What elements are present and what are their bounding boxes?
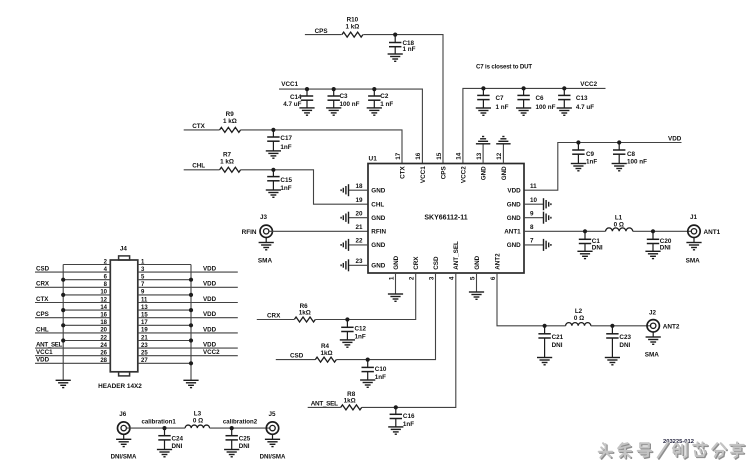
junction J4 right bus pin 13 xyxy=(189,308,193,312)
J4 row 12 pins 24/23 wires xyxy=(35,347,110,349)
junction ANT1 / C1 xyxy=(583,229,587,233)
svg-text:RFIN: RFIN xyxy=(371,229,386,236)
wire R6 to U1 pin 2 xyxy=(315,273,415,320)
svg-text:CSD: CSD xyxy=(36,266,50,273)
J4 row 3 pins 6/5 wires xyxy=(63,279,110,281)
svg-text:CHL: CHL xyxy=(192,163,205,170)
capacitor C13 xyxy=(563,88,565,95)
inductor L3 xyxy=(185,425,209,428)
svg-text:C16: C16 xyxy=(403,413,415,420)
svg-text:ANT2: ANT2 xyxy=(494,253,501,270)
svg-text:26: 26 xyxy=(100,351,107,357)
svg-text:20: 20 xyxy=(355,211,363,218)
svg-text:SKY66112-11: SKY66112-11 xyxy=(424,214,467,221)
J4 row 13 pins 26/25 wires xyxy=(35,355,110,357)
svg-text:100 nF: 100 nF xyxy=(340,101,360,108)
ground U1 pin 10 xyxy=(524,203,544,205)
svg-text:J5: J5 xyxy=(268,411,276,418)
ground C1 xyxy=(577,250,592,252)
wire U1 pin 8 ANT1 to L1 xyxy=(524,230,606,232)
ground C24 xyxy=(157,449,172,451)
svg-text:27: 27 xyxy=(141,358,148,364)
J4 row 11 pins 22/21 wires xyxy=(63,340,110,342)
svg-text:C9: C9 xyxy=(586,151,595,158)
svg-text:DNI: DNI xyxy=(239,443,250,450)
capacitor C7 xyxy=(482,88,484,95)
svg-text:VCC1: VCC1 xyxy=(281,81,298,88)
svg-text:CSD: CSD xyxy=(433,256,440,270)
ground U1 pin 12 xyxy=(502,144,504,164)
J4 row 7 pins 14/13 wires xyxy=(63,309,110,311)
capacitor C21 xyxy=(544,326,546,334)
svg-text:GND: GND xyxy=(507,242,521,249)
svg-text:VDD: VDD xyxy=(36,357,50,364)
svg-text:14: 14 xyxy=(100,305,107,311)
capacitor C20 xyxy=(652,231,654,239)
svg-text:3: 3 xyxy=(428,276,435,280)
junction J4 left bus pin 18 xyxy=(61,323,65,327)
svg-text:0 Ω: 0 Ω xyxy=(574,315,584,322)
ground C8 xyxy=(612,163,627,165)
svg-text:ANT_SEL: ANT_SEL xyxy=(311,400,338,407)
ground C7 xyxy=(476,107,491,109)
svg-text:4.7 uF: 4.7 uF xyxy=(576,104,594,111)
svg-text:VCC1: VCC1 xyxy=(420,166,427,183)
ground U1 pin 18 xyxy=(349,189,369,191)
svg-text:VDD: VDD xyxy=(507,187,521,194)
svg-text:L2: L2 xyxy=(575,308,583,315)
junction CHL / C15 xyxy=(271,168,275,172)
svg-text:9: 9 xyxy=(530,211,534,218)
svg-text:100 nF: 100 nF xyxy=(627,158,647,165)
capacitor C8 xyxy=(618,143,620,151)
svg-text:0 Ω: 0 Ω xyxy=(193,418,203,425)
svg-text:calibration1: calibration1 xyxy=(142,419,177,426)
svg-text:DNI/SMA: DNI/SMA xyxy=(260,454,286,461)
junction calibration1 / C24 xyxy=(162,426,166,430)
wire CSD to R4 xyxy=(276,359,316,361)
junction CRX / C12 xyxy=(345,317,349,321)
junction J4 right bus pin 17 xyxy=(189,323,193,327)
svg-text:VDD: VDD xyxy=(668,136,682,143)
J4 row 5 pins 10/9 wires xyxy=(63,294,110,296)
svg-text:C2: C2 xyxy=(380,93,389,100)
svg-text:J1: J1 xyxy=(690,214,698,221)
svg-text:VDD: VDD xyxy=(203,311,217,318)
svg-text:GND: GND xyxy=(481,166,488,180)
svg-text:CHL: CHL xyxy=(371,201,384,208)
J4 row 6 pins 12/11 wires xyxy=(35,302,110,304)
svg-text:23: 23 xyxy=(355,258,363,265)
ground C20 xyxy=(645,250,660,252)
ground C14 xyxy=(299,107,314,109)
svg-text:18: 18 xyxy=(100,320,107,326)
capacitor C18 xyxy=(394,35,396,43)
ground C21 xyxy=(537,357,552,359)
capacitor C15 xyxy=(272,170,274,177)
svg-text:VDD: VDD xyxy=(203,342,217,349)
svg-text:4.7 uF: 4.7 uF xyxy=(283,101,301,108)
J4 row 10 pins 20/19 wires xyxy=(35,332,110,334)
svg-text:14: 14 xyxy=(456,152,463,160)
resistor R8 xyxy=(341,405,362,410)
resistor R7 xyxy=(220,167,241,172)
ground J4 right bus xyxy=(183,379,198,381)
svg-text:J2: J2 xyxy=(649,310,657,317)
J4 row 2 pins 4/3 wires xyxy=(35,271,110,273)
svg-text:VDD: VDD xyxy=(203,296,217,303)
svg-text:ANT1: ANT1 xyxy=(704,229,721,236)
ground U1 pin 20 xyxy=(349,217,369,219)
J4 right ground bus wire xyxy=(190,265,192,381)
capacitor C23 xyxy=(611,326,613,334)
svg-text:DNI: DNI xyxy=(592,245,603,252)
svg-text:R7: R7 xyxy=(223,152,232,159)
svg-text:28: 28 xyxy=(100,358,107,364)
svg-text:2: 2 xyxy=(409,276,416,280)
svg-text:VDD: VDD xyxy=(203,281,217,288)
svg-text:CRX: CRX xyxy=(413,256,420,270)
junction ANT2 / C23 xyxy=(610,324,614,328)
svg-text:13: 13 xyxy=(476,152,483,160)
svg-text:4: 4 xyxy=(449,276,456,280)
svg-text:C6: C6 xyxy=(536,95,545,102)
ground U1 pin 22 xyxy=(349,244,369,246)
ground C9 xyxy=(571,163,586,165)
J4 row 14 pins 28/27 wires xyxy=(35,362,110,364)
svg-text:C7 is closest to DUT: C7 is closest to DUT xyxy=(476,64,532,71)
ground C25 xyxy=(224,449,239,451)
svg-text:J6: J6 xyxy=(119,411,127,418)
svg-text:15: 15 xyxy=(141,313,148,319)
svg-text:1kΩ: 1kΩ xyxy=(299,310,311,317)
svg-text:ANT2: ANT2 xyxy=(663,323,680,330)
svg-text:1 nF: 1 nF xyxy=(496,104,509,111)
ground C3 xyxy=(326,107,341,109)
resistor R10 xyxy=(342,32,363,37)
ground J2 xyxy=(652,332,654,337)
svg-text:13: 13 xyxy=(141,305,148,311)
svg-text:DNI: DNI xyxy=(172,443,183,450)
svg-text:1nF: 1nF xyxy=(280,144,291,151)
ground U1 pin 13 xyxy=(482,144,484,164)
junction VCC1 / C3 xyxy=(332,87,336,91)
resistor R4 xyxy=(315,357,336,362)
junction VCC2 / C7 xyxy=(481,86,485,90)
ground C16 xyxy=(388,426,403,428)
ground C2 xyxy=(367,107,382,109)
svg-text:GND: GND xyxy=(371,187,385,194)
capacitor C10 xyxy=(367,360,369,368)
inductor L2 xyxy=(566,323,591,326)
svg-text:17: 17 xyxy=(141,320,148,326)
svg-text:1 kΩ: 1 kΩ xyxy=(223,118,237,125)
capacitor C9 xyxy=(577,143,579,151)
svg-text:1 kΩ: 1 kΩ xyxy=(345,24,359,31)
junction J4 right bus pin 21 xyxy=(189,338,193,342)
svg-text:1 kΩ: 1 kΩ xyxy=(220,159,234,166)
ground C18 xyxy=(388,53,403,55)
capacitor C12 xyxy=(346,320,348,328)
svg-text:7: 7 xyxy=(530,238,534,245)
ground J4 left bus xyxy=(56,379,71,381)
svg-text:GND: GND xyxy=(371,263,385,270)
svg-text:C24: C24 xyxy=(172,436,184,443)
junction ANT2 / C21 xyxy=(543,324,547,328)
svg-text:16: 16 xyxy=(100,313,107,319)
svg-text:CPS: CPS xyxy=(440,166,447,179)
svg-text:12: 12 xyxy=(100,297,107,303)
capacitor C3 xyxy=(333,89,335,96)
svg-text:C7: C7 xyxy=(496,95,505,102)
resistor R6 xyxy=(294,317,315,322)
junction J4 left bus pin 14 xyxy=(61,308,65,312)
wire CTX to R9 xyxy=(184,129,220,131)
svg-text:CRX: CRX xyxy=(36,281,50,288)
svg-text:GND: GND xyxy=(507,215,521,222)
svg-text:DNI/SMA: DNI/SMA xyxy=(111,454,137,461)
svg-text:GND: GND xyxy=(393,255,400,269)
svg-text:1nF: 1nF xyxy=(375,374,386,381)
ground C6 xyxy=(516,107,531,109)
svg-text:1nF: 1nF xyxy=(355,334,366,341)
watermark xyxy=(599,442,745,458)
svg-text:calibration2: calibration2 xyxy=(223,419,258,426)
junction VCC1 / C14 xyxy=(305,87,309,91)
svg-text:GND: GND xyxy=(371,215,385,222)
svg-text:1kΩ: 1kΩ xyxy=(344,398,356,405)
svg-text:RFIN: RFIN xyxy=(242,229,257,236)
svg-text:CPS: CPS xyxy=(315,28,328,35)
svg-text:CSD: CSD xyxy=(290,353,304,360)
junction CTX / C17 xyxy=(271,128,275,132)
svg-text:SMA: SMA xyxy=(645,352,660,359)
wire U1 pin 6 ANT2 to L2 xyxy=(497,273,566,326)
capacitor C24 xyxy=(164,428,166,436)
svg-text:22: 22 xyxy=(100,335,107,341)
junction J4 right bus pin 9 xyxy=(189,293,193,297)
svg-text:C8: C8 xyxy=(627,151,636,158)
J4 row 1 pins 2/1 wires xyxy=(63,264,110,266)
svg-text:18: 18 xyxy=(355,183,363,190)
svg-text:J4: J4 xyxy=(120,246,128,253)
junction CPS / C18 xyxy=(393,33,397,37)
svg-text:CTX: CTX xyxy=(192,123,205,130)
ground U1 pin 9 xyxy=(524,217,544,219)
svg-text:C17: C17 xyxy=(280,135,292,142)
svg-text:10: 10 xyxy=(100,290,107,296)
svg-text:R9: R9 xyxy=(226,111,235,118)
junction VCC2 / C13 xyxy=(562,86,566,90)
svg-text:HEADER 14X2: HEADER 14X2 xyxy=(98,383,142,390)
wire R7 to U1 pin 19 xyxy=(241,170,368,204)
wire RFIN J3 to U1 pin 21 xyxy=(269,230,368,232)
junction J4 right bus pin 27 xyxy=(189,361,193,365)
capacitor C16 xyxy=(395,407,397,414)
capacitor C17 xyxy=(272,130,274,137)
J4 row 4 pins 8/7 wires xyxy=(35,286,110,288)
wire J6 to L3 xyxy=(126,427,185,429)
capacitor C14 xyxy=(306,89,308,96)
svg-text:24: 24 xyxy=(100,343,107,349)
svg-text:C21: C21 xyxy=(552,334,564,341)
svg-text:1: 1 xyxy=(388,276,395,280)
svg-text:11: 11 xyxy=(141,297,148,303)
svg-text:DNI: DNI xyxy=(552,342,563,349)
svg-text:VCC1: VCC1 xyxy=(36,349,53,356)
svg-text:CTX: CTX xyxy=(399,166,406,179)
wire R10 to U1 pin 15 xyxy=(363,35,443,164)
svg-text:21: 21 xyxy=(141,335,148,341)
ground C13 xyxy=(557,107,572,109)
svg-text:1nF: 1nF xyxy=(586,158,597,165)
J4 row 8 pins 16/15 wires xyxy=(35,317,110,319)
svg-text:ANT_SEL: ANT_SEL xyxy=(453,241,460,270)
capacitor C1 xyxy=(584,231,586,239)
svg-text:1nF: 1nF xyxy=(280,185,291,192)
svg-text:SMA: SMA xyxy=(686,258,701,265)
junction VDD / C8 xyxy=(617,140,621,144)
svg-text:C10: C10 xyxy=(375,366,387,373)
capacitor C2 xyxy=(373,89,375,96)
svg-text:C23: C23 xyxy=(619,334,631,341)
svg-text:10: 10 xyxy=(530,197,538,204)
capacitor C6 xyxy=(523,88,525,95)
ground J5 xyxy=(272,434,274,439)
wire R8 to U1 pin 4 xyxy=(362,273,456,407)
svg-text:VDD: VDD xyxy=(203,266,217,273)
junction VDD / C9 xyxy=(576,140,580,144)
svg-text:C15: C15 xyxy=(280,177,292,184)
svg-text:16: 16 xyxy=(415,152,422,160)
ground C15 xyxy=(266,189,281,191)
svg-text:1 nF: 1 nF xyxy=(403,46,416,53)
svg-text:100 nF: 100 nF xyxy=(536,104,556,111)
svg-text:17: 17 xyxy=(395,152,402,160)
junction J4 left bus pin 6 xyxy=(61,278,65,282)
ground C10 xyxy=(360,379,375,381)
svg-text:C13: C13 xyxy=(576,95,588,102)
svg-text:C3: C3 xyxy=(340,93,349,100)
svg-text:VCC2: VCC2 xyxy=(203,349,220,356)
wire VDD rail to U1 pin 11 xyxy=(524,143,682,191)
junction CSD / C10 xyxy=(366,358,370,362)
svg-text:DNI: DNI xyxy=(619,342,630,349)
svg-text:8: 8 xyxy=(530,224,534,231)
junction ANT1 / C20 xyxy=(651,229,655,233)
svg-text:15: 15 xyxy=(436,152,443,160)
junction J4 left bus pin 22 xyxy=(61,338,65,342)
svg-text:GND: GND xyxy=(507,201,521,208)
inductor L1 xyxy=(606,228,633,231)
svg-text:20: 20 xyxy=(100,328,107,334)
svg-text:GND: GND xyxy=(501,166,508,180)
J4 left ground bus wire xyxy=(62,265,64,381)
J4 row 9 pins 18/17 wires xyxy=(63,324,110,326)
wire CPS to R10 xyxy=(305,34,342,36)
svg-text:CRX: CRX xyxy=(267,312,281,319)
svg-text:1kΩ: 1kΩ xyxy=(320,350,332,357)
svg-text:1nF: 1nF xyxy=(403,421,414,428)
ground U1 pin 5 xyxy=(476,273,478,292)
svg-text:22: 22 xyxy=(355,238,363,245)
svg-text:6: 6 xyxy=(490,276,497,280)
svg-text:21: 21 xyxy=(355,224,363,231)
junction VCC2 / C6 xyxy=(522,86,526,90)
svg-text:19: 19 xyxy=(355,197,363,204)
svg-text:ANT1: ANT1 xyxy=(504,229,521,236)
svg-text:25: 25 xyxy=(141,351,148,357)
wire CRX to R6 xyxy=(257,319,294,321)
junction calibration2 / C25 xyxy=(230,426,234,430)
svg-text:L1: L1 xyxy=(615,214,623,221)
svg-text:1 nF: 1 nF xyxy=(380,101,393,108)
wire CHL to R7 xyxy=(184,169,220,171)
svg-text:23: 23 xyxy=(141,343,148,349)
svg-text:J3: J3 xyxy=(260,214,268,221)
connector J4 HEADER 14X2 body xyxy=(110,260,138,372)
wire L3 to J5 xyxy=(210,427,270,429)
wire VCC1 rail to U1 pin 16 xyxy=(279,89,422,163)
svg-text:C25: C25 xyxy=(239,436,251,443)
ground U1 pin 23 xyxy=(349,264,369,266)
ground J3 xyxy=(265,238,267,243)
svg-text:CTX: CTX xyxy=(36,296,49,303)
junction J4 right bus pin 5 xyxy=(189,278,193,282)
ground C12 xyxy=(340,339,355,341)
ground U1 pin 1 xyxy=(395,273,397,294)
junction ANT_SEL / C16 xyxy=(394,405,398,409)
resistor R9 xyxy=(220,127,241,132)
svg-text:5: 5 xyxy=(469,276,476,280)
svg-text:CPS: CPS xyxy=(36,311,49,318)
svg-text:U1: U1 xyxy=(369,156,378,163)
wire R9 to U1 pin 17 xyxy=(241,130,402,164)
IC U1 SKY66112-11 body xyxy=(368,164,524,274)
svg-text:DNI: DNI xyxy=(660,245,671,252)
svg-text:GND: GND xyxy=(371,242,385,249)
wire L1 to J1 xyxy=(633,230,692,232)
svg-text:C12: C12 xyxy=(355,326,367,333)
ground C23 xyxy=(605,357,620,359)
svg-text:ANT_SEL: ANT_SEL xyxy=(36,342,63,349)
wire VCC2 rail to U1 pin 14 xyxy=(463,88,606,163)
svg-text:19: 19 xyxy=(141,328,148,334)
wire ANT_SEL to R8 xyxy=(308,406,341,408)
svg-text:11: 11 xyxy=(530,183,537,190)
svg-text:L3: L3 xyxy=(194,411,202,418)
ground C17 xyxy=(266,150,281,152)
junction VCC1 / C2 xyxy=(372,87,376,91)
svg-text:CHL: CHL xyxy=(36,326,49,333)
ground J6 xyxy=(123,434,125,439)
ground J1 xyxy=(693,238,695,243)
svg-text:12: 12 xyxy=(496,152,503,160)
svg-text:VCC2: VCC2 xyxy=(580,81,597,88)
svg-text:0 Ω: 0 Ω xyxy=(614,221,624,228)
wire R4 to U1 pin 3 xyxy=(336,273,435,360)
svg-text:R10: R10 xyxy=(347,17,359,24)
svg-text:GND: GND xyxy=(474,255,481,269)
svg-text:VDD: VDD xyxy=(203,326,217,333)
junction J4 left bus pin 10 xyxy=(61,293,65,297)
capacitor C25 xyxy=(231,428,233,436)
svg-text:VCC2: VCC2 xyxy=(460,166,467,183)
ground U1 pin 7 xyxy=(524,244,544,246)
wire L2 to J2 xyxy=(591,325,651,327)
svg-text:SMA: SMA xyxy=(258,258,273,265)
